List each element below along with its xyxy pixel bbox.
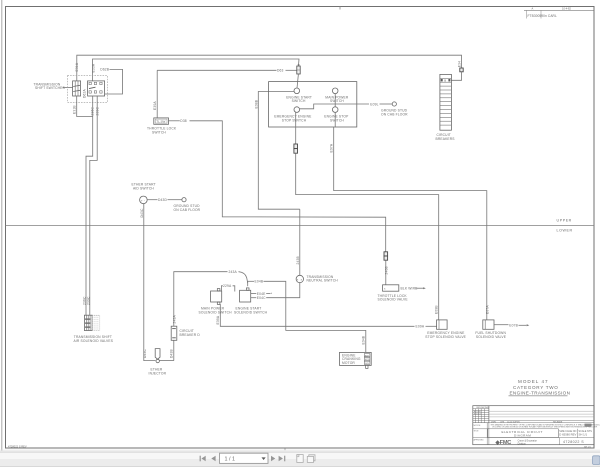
- svg-text:◆FMC: ◆FMC: [495, 439, 512, 446]
- svg-text:E04B: E04B: [361, 335, 365, 344]
- svg-text:D38: D38: [180, 119, 187, 123]
- MODEL 47 title text: [509, 379, 571, 396]
- wire E04C to transmission neutral switch: [251, 283, 300, 300]
- wire E07B: [494, 324, 529, 328]
- svg-text:243A: 243A: [172, 315, 176, 324]
- svg-text:239C: 239C: [95, 107, 99, 116]
- transmission shift switch S1: [73, 81, 81, 96]
- title block: [473, 406, 600, 449]
- svg-text:ON CAB FLOOR: ON CAB FLOOR: [174, 208, 201, 212]
- wire label D62B with bracket: [100, 68, 122, 94]
- page left edge: [1, 0, 3, 451]
- svg-text:SHIFT SWITCHES: SHIFT SWITCHES: [35, 86, 66, 90]
- svg-text:4728022 S REV: 4728022 S REV: [8, 445, 27, 449]
- wire 243B neutral switch to E08B route: [296, 209, 300, 275]
- svg-text:229A: 229A: [223, 284, 232, 288]
- svg-text:CATEGORY TWO: CATEGORY TWO: [513, 385, 559, 390]
- svg-text:243A: 243A: [229, 270, 238, 274]
- toolbar right scroll element: [593, 456, 600, 465]
- svg-text:D43D: D43D: [158, 198, 167, 202]
- svg-text:E07B: E07B: [509, 324, 518, 328]
- throttle lock switch TL: [154, 118, 169, 124]
- svg-text:SOLENOID SWITCH: SOLENOID SWITCH: [199, 311, 233, 315]
- svg-text:MODEL 47: MODEL 47: [518, 379, 549, 384]
- svg-text:E09A: E09A: [416, 325, 425, 329]
- svg-text:SPD: SPD: [365, 359, 370, 361]
- wire E30A from D63 line to TL switch: [153, 70, 157, 118]
- svg-text:D62B: D62B: [100, 68, 109, 72]
- svg-text:243B: 243B: [296, 256, 300, 265]
- circuit breakers label: [436, 133, 456, 141]
- svg-text:D43C: D43C: [140, 208, 144, 217]
- fuel shutdown solenoid valve: [475, 320, 506, 339]
- wire main power to engine stop: [334, 94, 336, 107]
- FMC logo row: [495, 438, 585, 446]
- throttle lock solenoid valve label: [378, 294, 409, 302]
- toolbar multi page icon: [307, 455, 315, 463]
- wire E08B from engine start switch: [254, 92, 300, 210]
- wire D43D to ground stud: [147, 198, 182, 202]
- ground stud on cab floor (right): [381, 102, 408, 117]
- toolbar next page button: [271, 456, 275, 462]
- wire E34 to circuit breakers: [451, 61, 463, 80]
- svg-text:E09B: E09B: [435, 305, 439, 314]
- toolbar page view icon: [297, 455, 303, 463]
- revision strip top right: [524, 7, 594, 19]
- wire 236C from S2 down to air solenoid connector: [83, 96, 95, 315]
- svg-text:1 / 1: 1 / 1: [225, 456, 236, 462]
- svg-text:239C: 239C: [86, 296, 90, 305]
- svg-text:BREAKERS: BREAKERS: [436, 137, 456, 141]
- circuit breakers ladder: [440, 74, 452, 130]
- svg-text:SH 1/1: SH 1/1: [584, 447, 591, 449]
- revision grid: [473, 406, 594, 423]
- wire 239C from S2 down to air solenoid connector: [86, 96, 99, 315]
- svg-text:IGN: IGN: [365, 363, 369, 365]
- emergency engine stop switch: [274, 107, 312, 123]
- svg-text:E07A: E07A: [329, 143, 333, 152]
- svg-text:RELEASE: RELEASE: [553, 420, 563, 423]
- frame top fold tick: [339, 7, 341, 10]
- toolbar last page button: [279, 456, 286, 462]
- transmission shift switch enclosure: [67, 76, 107, 103]
- wire from ether injector to circuit breaker D: [159, 360, 173, 362]
- wire E09L to ground stud: [300, 102, 393, 109]
- svg-text:UPPER: UPPER: [557, 219, 572, 223]
- svg-text:E04B: E04B: [255, 280, 264, 284]
- svg-text:NEUTRAL SWITCH: NEUTRAL SWITCH: [307, 279, 339, 283]
- wire E04E with terminator: [251, 292, 273, 296]
- wire D38 from TL switch to throttle lock solenoid valve: [169, 119, 386, 252]
- transmission shift air solenoid valves connector: [84, 315, 99, 330]
- disclaimer text band: [491, 423, 600, 428]
- wire from emergency stop switch to solenoid valve E09B: [294, 112, 439, 320]
- main power switch: [325, 88, 349, 103]
- wire E04B from engine start solenoid to engine cranking motor: [248, 280, 366, 353]
- toolbar first page button: [200, 456, 206, 462]
- svg-text:240B: 240B: [384, 266, 388, 275]
- svg-text:BLK WIRE: BLK WIRE: [401, 287, 419, 291]
- svg-text:STOP SWITCH: STOP SWITCH: [282, 118, 307, 122]
- cab switch box: [269, 82, 357, 127]
- size cage rev cells: [558, 429, 592, 438]
- svg-text:MOTOR: MOTOR: [342, 361, 355, 365]
- electrical circuit diagram title: [488, 429, 559, 438]
- bus wire bus1: [77, 55, 462, 81]
- svg-text:236C: 236C: [91, 107, 95, 116]
- left label column dividers: [473, 406, 594, 445]
- svg-text:OR COPIED OR USED IN WHOLE OR: OR COPIED OR USED IN WHOLE OR IN PART FO…: [492, 425, 598, 428]
- svg-text:E31A: E31A: [75, 62, 79, 71]
- svg-text:AID SWITCH: AID SWITCH: [133, 186, 154, 190]
- svg-text:APPROVED: APPROVED: [474, 439, 485, 442]
- BLK WIRE label: [401, 287, 426, 291]
- svg-text:FTB300590n CARL: FTB300590n CARL: [528, 14, 557, 18]
- main power solenoid switch: [199, 289, 233, 315]
- wire D43C down to ether injector: [140, 204, 156, 361]
- ether start aid switch: [132, 183, 156, 204]
- svg-text:E08B: E08B: [254, 99, 258, 108]
- throttle lock switch label: [147, 127, 177, 135]
- transmission shift switch S2: [88, 81, 105, 96]
- svg-text:SWITCH: SWITCH: [292, 99, 306, 103]
- frame bottom fold tick: [284, 448, 286, 451]
- svg-text:10-12 SUPVR: 10-12 SUPVR: [507, 421, 520, 423]
- svg-text:SWITCH: SWITCH: [330, 99, 344, 103]
- emergency engine stop solenoid valve: [425, 320, 466, 339]
- svg-text:D63: D63: [277, 69, 284, 73]
- svg-text:SOLENOID VALVE: SOLENOID VALVE: [378, 298, 409, 302]
- svg-text:TL SW: TL SW: [156, 120, 165, 124]
- svg-text:D43B: D43B: [170, 349, 174, 358]
- engine start solenoid switch: [234, 288, 268, 315]
- wire from engine stop switch to fuel shutdown valve E07A: [329, 112, 489, 320]
- svg-text:SWITCH: SWITCH: [152, 131, 166, 135]
- svg-text:4728022 S: 4728022 S: [563, 440, 584, 444]
- ground stud on cab floor (left): [174, 198, 201, 212]
- svg-text:D 65580 REV: D 65580 REV: [559, 433, 576, 437]
- engine cranking motor: [340, 352, 372, 368]
- wire E09A from main power solenoid to emergency stop valve: [216, 304, 436, 328]
- wire 243A from circuit breaker D up and right to engine start solenoid: [172, 270, 247, 326]
- svg-text:E33A: E33A: [92, 63, 96, 72]
- svg-text:ON CAB FLOOR: ON CAB FLOOR: [381, 112, 408, 116]
- svg-text:-: -: [144, 199, 145, 203]
- svg-text:D43C: D43C: [143, 349, 147, 358]
- svg-text:10-4-82: 10-4-82: [562, 7, 571, 11]
- circuit breaker D: [171, 326, 200, 340]
- svg-text:E30A: E30A: [153, 101, 157, 110]
- svg-text:E34: E34: [457, 61, 461, 67]
- dwn chk row: [489, 420, 594, 423]
- svg-text:STOP SOLENOID VALVE: STOP SOLENOID VALVE: [425, 335, 466, 339]
- svg-text:TITLE: TITLE: [474, 431, 480, 433]
- wire D63 to engine start switch: [157, 69, 296, 73]
- svg-text:ENGINE-TRANSMISSION: ENGINE-TRANSMISSION: [510, 391, 571, 396]
- connector above engine start switch: [297, 64, 300, 88]
- svg-text:E09L: E09L: [370, 102, 378, 106]
- zone boundary line: [6, 224, 595, 226]
- svg-text:Division: Division: [518, 443, 527, 445]
- toolbar page number field: [220, 453, 269, 463]
- svg-text:BREAKER D: BREAKER D: [180, 333, 201, 337]
- svg-text:E07A: E07A: [486, 305, 490, 314]
- svg-text:+: +: [141, 199, 143, 203]
- svg-text:SOLENOID SWITCH: SOLENOID SWITCH: [234, 311, 268, 315]
- svg-text:BAT: BAT: [365, 354, 370, 357]
- left label cells: [474, 423, 488, 445]
- svg-text:A: A: [532, 7, 534, 11]
- svg-text:E31B: E31B: [73, 105, 77, 114]
- svg-text:Crane & Excavator: Crane & Excavator: [518, 440, 538, 443]
- svg-text:SWITCH: SWITCH: [330, 118, 344, 122]
- svg-text:AIR SOLENOID VALVES: AIR SOLENOID VALVES: [74, 339, 114, 343]
- wire E31B below S1: [73, 96, 93, 117]
- wire 229A: [221, 284, 234, 291]
- svg-text:SOLENOID VALVE: SOLENOID VALVE: [476, 335, 507, 339]
- svg-text:DIAGRAM: DIAGRAM: [514, 434, 531, 438]
- svg-text:B: B: [444, 79, 446, 83]
- ether injector: [149, 349, 167, 376]
- transmission shift switches label: [34, 82, 73, 90]
- bus wire bus2: [93, 59, 300, 81]
- svg-text:E09A: E09A: [216, 315, 220, 324]
- throttle lock solenoid valve: [383, 285, 399, 291]
- svg-text:DWN: DWN: [491, 421, 496, 423]
- svg-text:SH 1/1: SH 1/1: [579, 433, 588, 437]
- wire D43B: [170, 340, 174, 360]
- inline connector on throttle lock valve wire: [384, 252, 388, 285]
- svg-text:D62A: D62A: [82, 89, 86, 98]
- engine start switch: [286, 88, 312, 103]
- svg-text:LOWER: LOWER: [557, 229, 573, 233]
- air solenoid valves label: [74, 335, 114, 343]
- svg-text:E04C: E04C: [257, 296, 266, 300]
- PDF viewer toolbar: [0, 450, 600, 467]
- toolbar prev page button: [211, 456, 215, 462]
- svg-text:NOTICE: NOTICE: [474, 425, 482, 427]
- svg-text:INJECTOR: INJECTOR: [149, 371, 167, 375]
- svg-text:REVISIONS: REVISIONS: [477, 407, 489, 409]
- transmission neutral switch: [296, 275, 338, 283]
- svg-text:CHK: CHK: [500, 421, 505, 423]
- engine stop switch: [324, 107, 349, 123]
